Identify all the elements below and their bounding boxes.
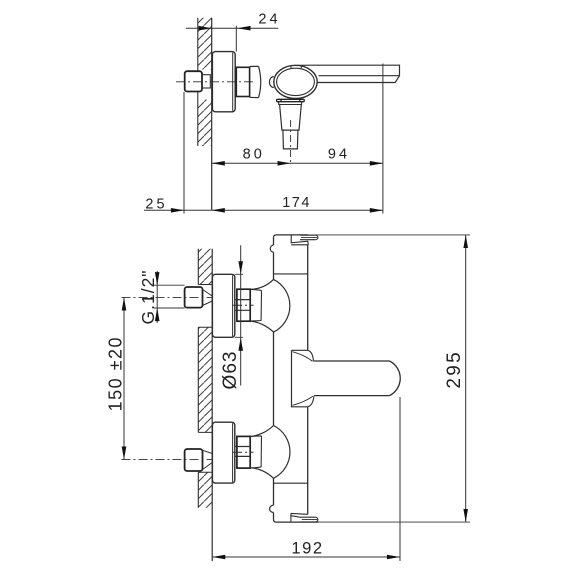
wall hatch top view lower band: [198, 100, 212, 147]
body tab lower: [270, 505, 274, 512]
bottom nut: [237, 436, 250, 468]
neck (top view): [236, 67, 249, 96]
svg-text:192: 192: [291, 539, 323, 558]
dimension D63 arrows: [238, 261, 243, 274]
svg-text:295: 295: [444, 350, 465, 389]
top boss centerline: [233, 304, 254, 306]
dimension 80 arrows: [212, 161, 225, 166]
top inlet stub: [185, 287, 203, 308]
dimension G12 line: [156, 271, 158, 323]
flange inner edge line: [232, 53, 234, 111]
spout (top view): [297, 65, 400, 82]
top flange: [212, 274, 234, 337]
wall cut lines: [198, 285, 212, 473]
lever grip inner line: [301, 236, 317, 238]
svg-text:150 ±20: 150 ±20: [106, 336, 126, 411]
bottom knob inner line: [302, 519, 318, 521]
diverter body (top view): [280, 105, 302, 131]
top inlet centerline: [122, 296, 214, 298]
bottom inlet stub: [185, 449, 203, 471]
cartridge ellipse inner (top view): [277, 68, 315, 95]
svg-text:24: 24: [258, 12, 280, 28]
dimension 25 arrow: [171, 208, 184, 213]
handle ticks on ellipse (top view): [291, 65, 301, 68]
svg-text:25: 25: [145, 197, 167, 213]
wall face line bottom view: [211, 249, 213, 561]
inlet fitting collar (top view): [202, 75, 210, 88]
side tab (top view): [269, 77, 273, 88]
dimension 24 line: [186, 27, 278, 29]
top boss dome: [250, 279, 289, 332]
dimension 295 extension lines: [308, 235, 470, 522]
lever grip: [300, 235, 318, 240]
dimension 24 arrows: [199, 26, 212, 31]
spout tip extension line: [382, 64, 384, 214]
top boss cone: [250, 289, 261, 321]
dimension 295 arrows: [463, 235, 468, 248]
diverter ring (top view): [279, 102, 302, 105]
wall back edge bottom view: [197, 249, 199, 508]
svg-text:Ø63: Ø63: [220, 351, 241, 390]
top inlet taper: [203, 290, 213, 306]
bottom flange inner line: [232, 423, 234, 482]
svg-text:174: 174: [282, 195, 311, 211]
bottom knob wedge: [291, 513, 308, 522]
dimension 174 arrows: [212, 208, 225, 213]
body top edge: [274, 235, 309, 238]
dimension 150 arrows: [122, 297, 127, 310]
body trunk left edge: [273, 237, 275, 519]
spout tube: [313, 361, 400, 396]
dimension 94 arrow: [370, 161, 383, 166]
collar ring (top view): [250, 66, 261, 97]
bottom inlet centerline: [122, 459, 214, 461]
bottom nut facet lines: [235, 447, 250, 457]
dimension 295 line: [465, 235, 467, 522]
wall hatch bottom view band2: [198, 327, 212, 432]
bottom boss centerline: [233, 451, 254, 453]
top flange inner line: [232, 275, 234, 336]
top nut facet lines: [235, 300, 250, 311]
bottom boss dome: [250, 426, 290, 479]
dimension G12 arrows: [155, 272, 160, 285]
wall hatch bottom view band3: [198, 472, 212, 508]
spout base silhouette lines: [293, 352, 314, 406]
dimension D63 line: [240, 245, 242, 385]
body bottom edge: [274, 520, 319, 523]
dimension D63 extension lines: [235, 274, 243, 337]
dimension 192 extension line right: [399, 397, 401, 561]
bottom flange: [212, 422, 234, 483]
dimension 150 line: [123, 297, 125, 459]
dimension 192 arrows: [212, 555, 225, 560]
diverter knob (top view): [283, 130, 298, 149]
wall face line top view: [211, 18, 213, 211]
svg-text:G.1/2": G.1/2": [138, 269, 158, 324]
lever wedge: [291, 235, 308, 245]
body trunk right edge: [307, 245, 309, 515]
body tab upper: [270, 245, 273, 252]
cartridge ellipse outer (top view): [274, 65, 317, 98]
top nut: [237, 289, 250, 321]
bottom inlet taper: [203, 450, 213, 469]
wall hatch bottom view band1: [198, 249, 212, 285]
wall hatch top view upper band: [198, 18, 212, 70]
dimension 80-94 line: [212, 162, 383, 164]
inlet centerline (top view): [176, 81, 253, 83]
dimension 25 extension line: [183, 92, 185, 214]
svg-text:94: 94: [328, 147, 350, 163]
dimension 24 extension line: [235, 26, 237, 52]
dimension 192 line: [212, 556, 400, 558]
body joint line upper: [274, 273, 308, 275]
spout base fillets: [308, 350, 314, 407]
body joint line lower: [274, 482, 308, 484]
diverter centerline: [290, 120, 292, 165]
dimension G12 extension lines: [154, 285, 185, 308]
inlet fitting square (top view): [185, 71, 202, 91]
dimension 174-25 line: [144, 209, 383, 211]
svg-text:80: 80: [243, 147, 265, 163]
diverter flange bar (top view): [277, 99, 305, 101]
bottom knob pill: [301, 517, 318, 522]
bottom boss cone: [250, 436, 261, 468]
flange escutcheon (top view): [212, 52, 235, 112]
wall back edge top view: [197, 18, 199, 146]
spout base plate: [292, 350, 308, 407]
